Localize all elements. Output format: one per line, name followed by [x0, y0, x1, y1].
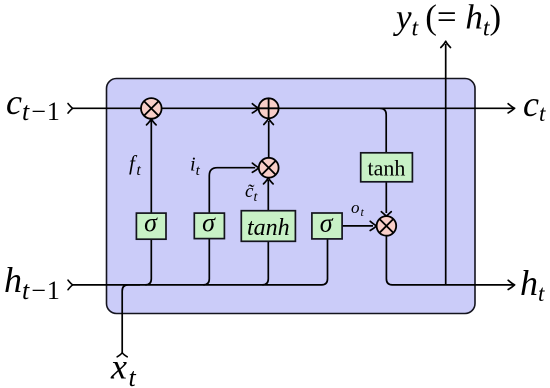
sigma gate box 2 (input)	[194, 208, 224, 238]
wire o gate output to multiply node O	[342, 225, 373, 227]
tanh gate box (candidate)	[241, 211, 295, 242]
wire h path (h_{t-1} into o-gate branch)	[73, 239, 328, 285]
arrowhead o into multiply node O	[370, 221, 376, 230]
wire multiply M to add node	[268, 121, 270, 158]
wire multiply O output to h_t	[386, 236, 514, 285]
tanh output box	[361, 153, 413, 182]
wire x_t input	[122, 285, 140, 353]
cell body rounded rectangle	[107, 79, 476, 314]
svg-text:tanh: tanh	[247, 215, 290, 241]
svg-text:xt: xt	[110, 347, 137, 388]
multiply node F (forget gate)	[141, 98, 162, 119]
wire c branch down to tanh box	[380, 108, 386, 153]
svg-text:ct: ct	[523, 84, 546, 126]
wire f branch	[145, 121, 151, 285]
svg-text:σ: σ	[320, 208, 334, 237]
wire tanh box down to multiply node O	[385, 182, 387, 213]
add node	[259, 98, 279, 118]
svg-text:σ: σ	[144, 208, 158, 237]
sigma gate box 1 (forget)	[136, 208, 166, 239]
arrowhead into add node from below	[264, 118, 274, 124]
svg-text:yt (= ht): yt (= ht)	[393, 0, 501, 41]
arrowhead y_t output	[441, 41, 451, 47]
svg-text:tanh: tanh	[368, 156, 406, 181]
arrowhead i into multiply node M	[252, 163, 258, 172]
multiply node M (input x candidate)	[259, 158, 279, 178]
wire y branch up to y_t	[445, 44, 447, 285]
arrowhead into add node from left	[252, 104, 258, 113]
tail of h input	[68, 280, 73, 290]
arrowhead h_t output	[508, 280, 514, 289]
arrowhead tanh into multiply node O	[381, 212, 391, 216]
sigma gate box 3 (output)	[312, 208, 342, 239]
tail of c input	[68, 104, 73, 114]
arrowhead c-tilde into multiply node M	[264, 178, 274, 184]
wire i branch	[203, 168, 255, 285]
multiply node O (output gate)	[377, 216, 397, 236]
svg-text:ht: ht	[520, 263, 545, 306]
arrowhead f into multiply node F	[147, 119, 157, 125]
tail of x input	[117, 353, 127, 357]
wire c path (c_{t-1} to c_t)	[73, 107, 515, 109]
svg-text:ct−1: ct−1	[6, 82, 61, 126]
svg-text:ht−1: ht−1	[4, 260, 61, 305]
wire c-tilde branch	[262, 180, 268, 285]
svg-text:σ: σ	[202, 208, 216, 237]
arrowhead c_t output	[508, 104, 514, 113]
